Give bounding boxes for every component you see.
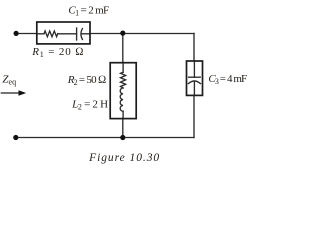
svg-text:C1 = 2 mF: C1 = 2 mF: [68, 4, 109, 17]
svg-text:Zeq: Zeq: [2, 73, 16, 86]
svg-text:R2 = 50 Ω: R2 = 50 Ω: [67, 74, 106, 87]
svg-text:L2 = 2 H: L2 = 2 H: [71, 98, 108, 111]
svg-text:C3 = 4 mF: C3 = 4 mF: [208, 73, 247, 86]
svg-text:R1 = 20 Ω: R1 = 20 Ω: [31, 46, 84, 59]
svg-text:Figure 10.30: Figure 10.30: [88, 152, 160, 164]
